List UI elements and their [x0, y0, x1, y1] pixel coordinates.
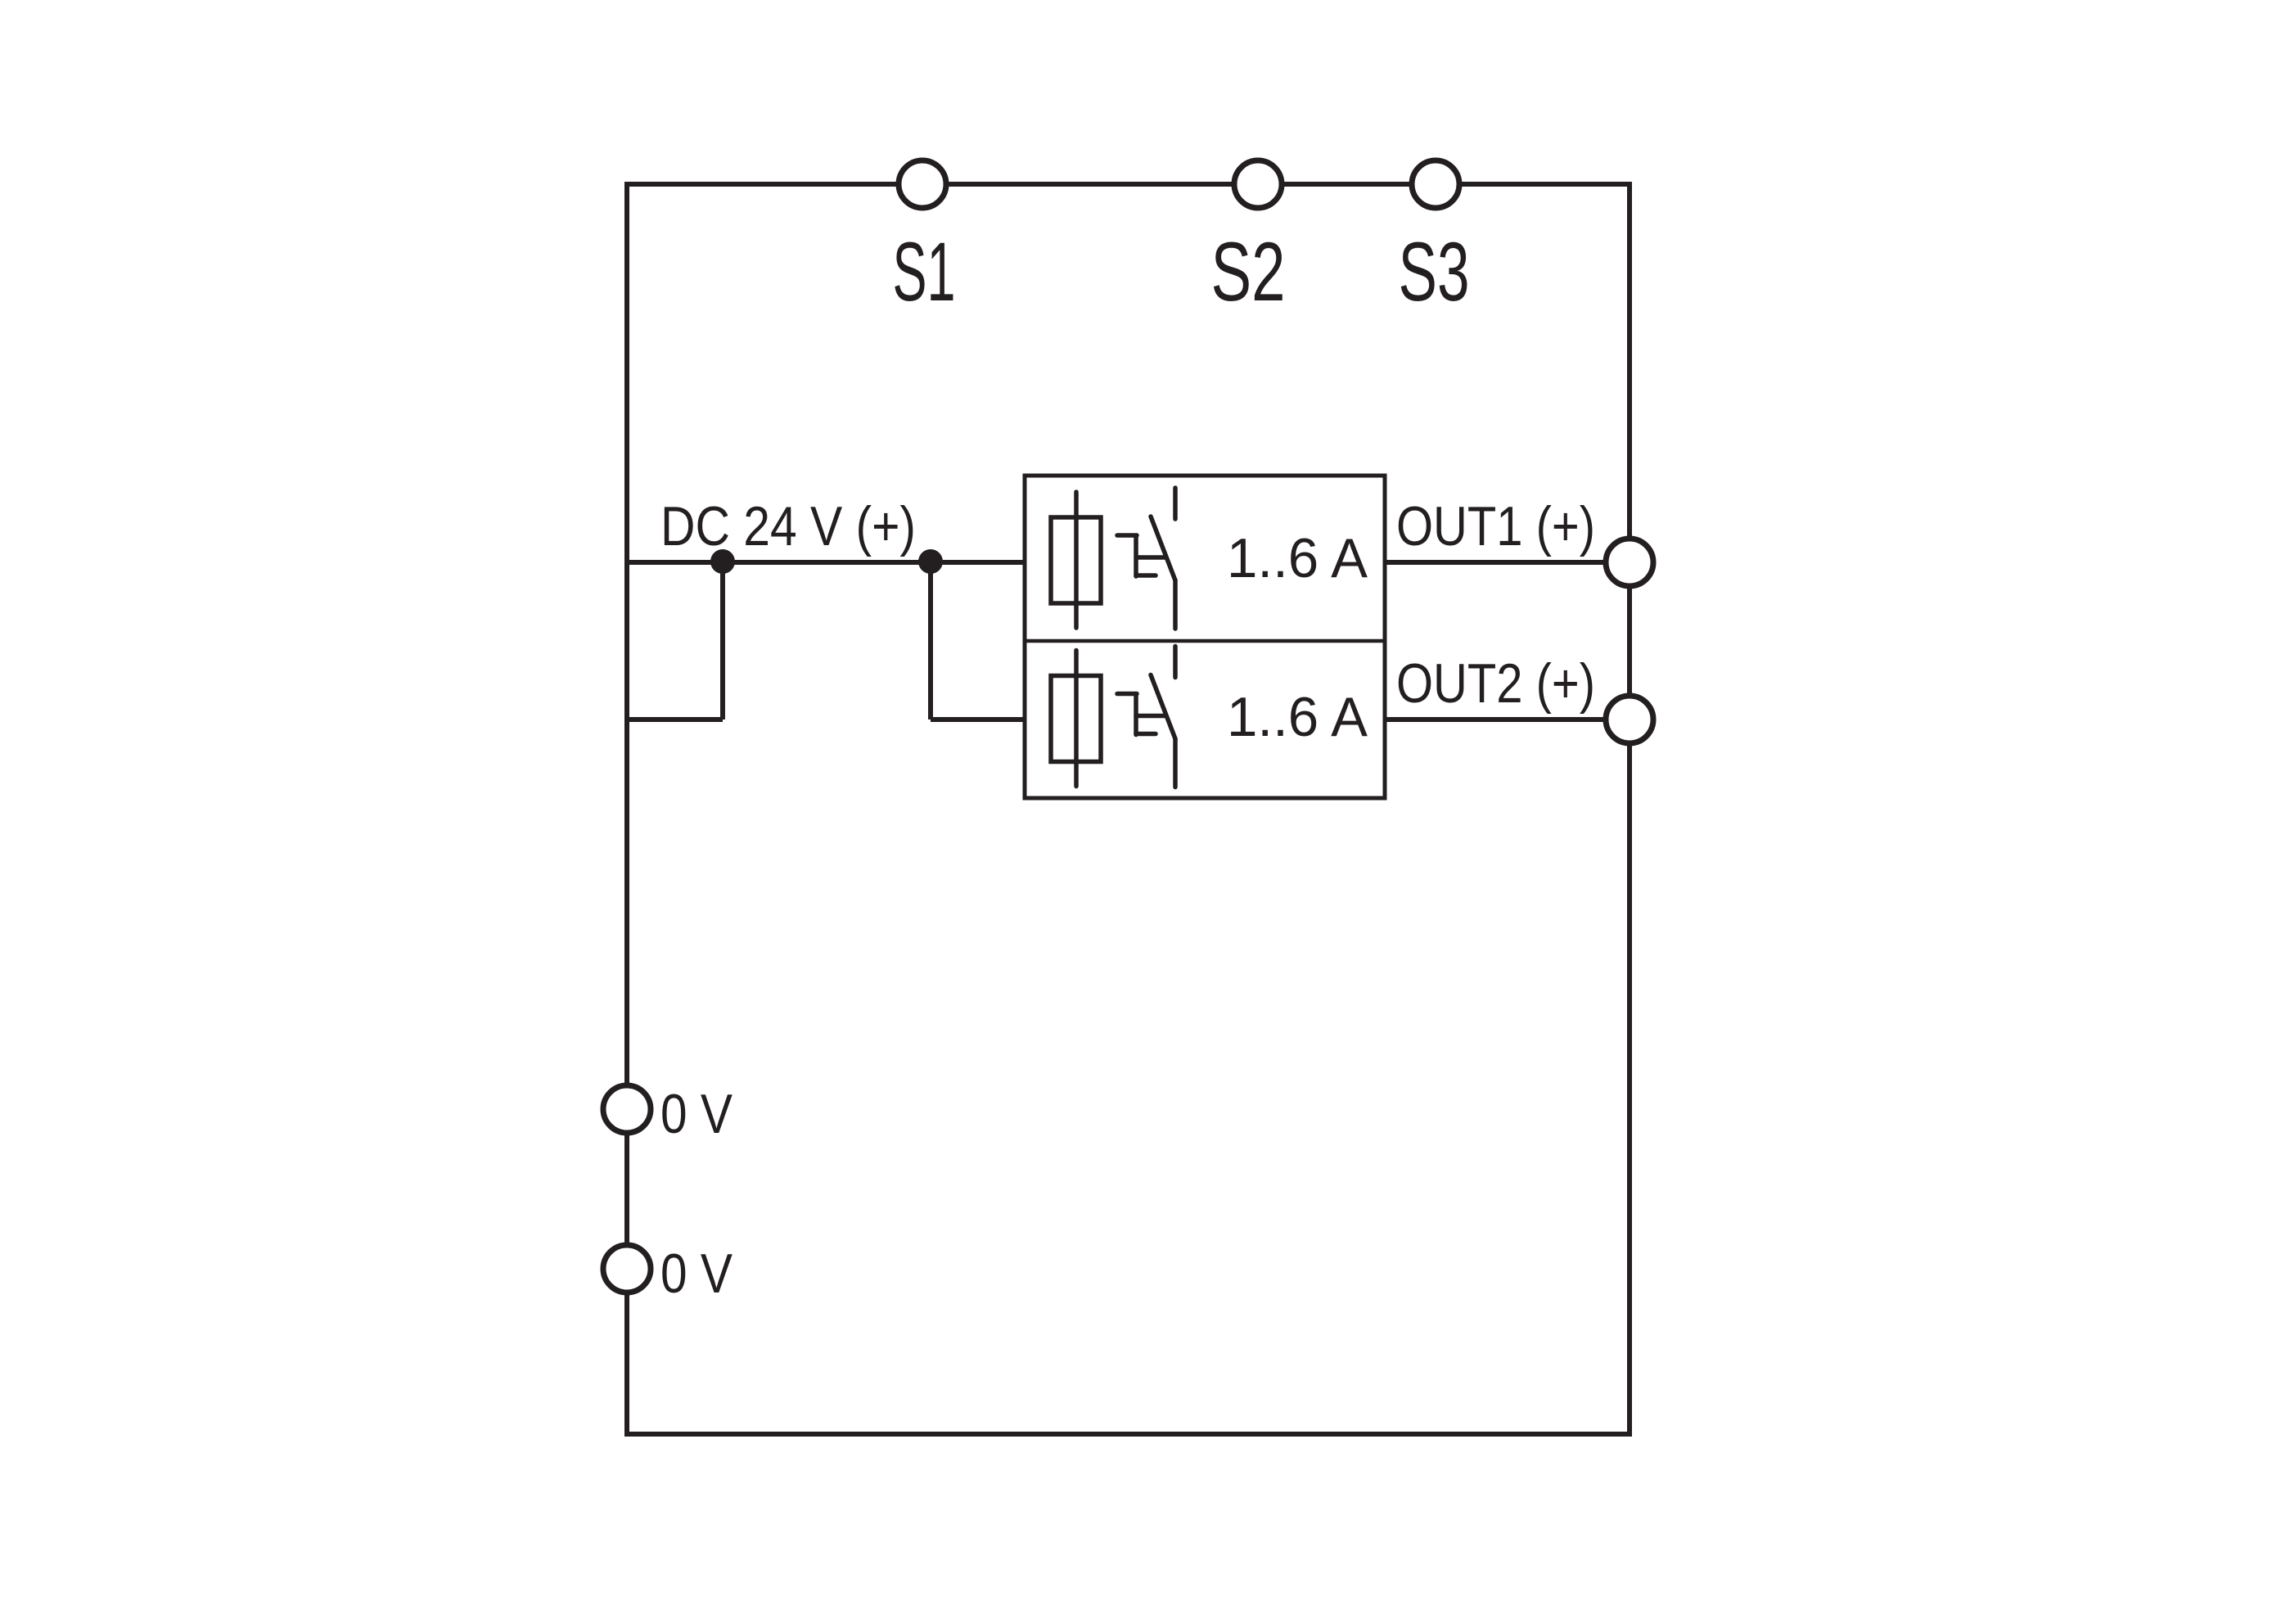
- wire: junction B drop: [928, 562, 933, 720]
- ECB module box U1: [1025, 476, 1385, 798]
- wire: junction A return to left rail: [627, 717, 723, 722]
- channel 2 symbols: fuse F2 + trip release + switch contact: [1051, 647, 1175, 787]
- wire: outer loop left: [624, 182, 629, 1437]
- svg-text:DC 24 V (+): DC 24 V (+): [660, 495, 916, 557]
- wire: outer loop bottom: [624, 1432, 1632, 1437]
- junction node B: [918, 549, 943, 574]
- svg-text:OUT2 (+): OUT2 (+): [1396, 652, 1595, 715]
- svg-text:1..6 A: 1..6 A: [1227, 686, 1368, 748]
- wire: junction B feed to channel 2: [931, 717, 1025, 722]
- junction node A: [710, 549, 735, 574]
- switch contact channel 2: [1173, 647, 1178, 678]
- svg-text:S3: S3: [1399, 225, 1470, 318]
- terminal S2: [1234, 160, 1282, 208]
- terminal S3: [1412, 160, 1459, 208]
- terminal 0V a: [603, 1085, 651, 1133]
- fuse F1: [1051, 517, 1101, 603]
- svg-text:0 V: 0 V: [660, 1243, 733, 1305]
- wire: OUT2: [1385, 717, 1630, 722]
- svg-text:1..6 A: 1..6 A: [1227, 527, 1368, 589]
- terminal OUT1: [1606, 539, 1653, 586]
- svg-text:0 V: 0 V: [660, 1083, 733, 1145]
- terminal S1: [899, 160, 946, 208]
- fuse F2: [1051, 676, 1101, 762]
- terminal 0V b: [603, 1245, 651, 1292]
- wire: OUT1: [1385, 560, 1630, 565]
- channel 1 symbols: fuse F1 + trip release + switch contact: [1051, 488, 1175, 629]
- svg-text:S2: S2: [1211, 225, 1286, 318]
- trip release bracket channel 2: [1117, 692, 1137, 697]
- wire: outer loop top: [627, 182, 1630, 187]
- svg-text:S1: S1: [893, 225, 956, 318]
- terminal OUT2: [1606, 696, 1653, 743]
- wire: outer loop right: [1627, 182, 1632, 1437]
- wire: junction A drop: [720, 562, 725, 720]
- switch contact channel 1: [1173, 488, 1178, 519]
- wire: DC 24V bus: [627, 560, 1025, 565]
- svg-text:OUT1 (+): OUT1 (+): [1396, 495, 1595, 557]
- trip release bracket channel 1: [1117, 533, 1137, 538]
